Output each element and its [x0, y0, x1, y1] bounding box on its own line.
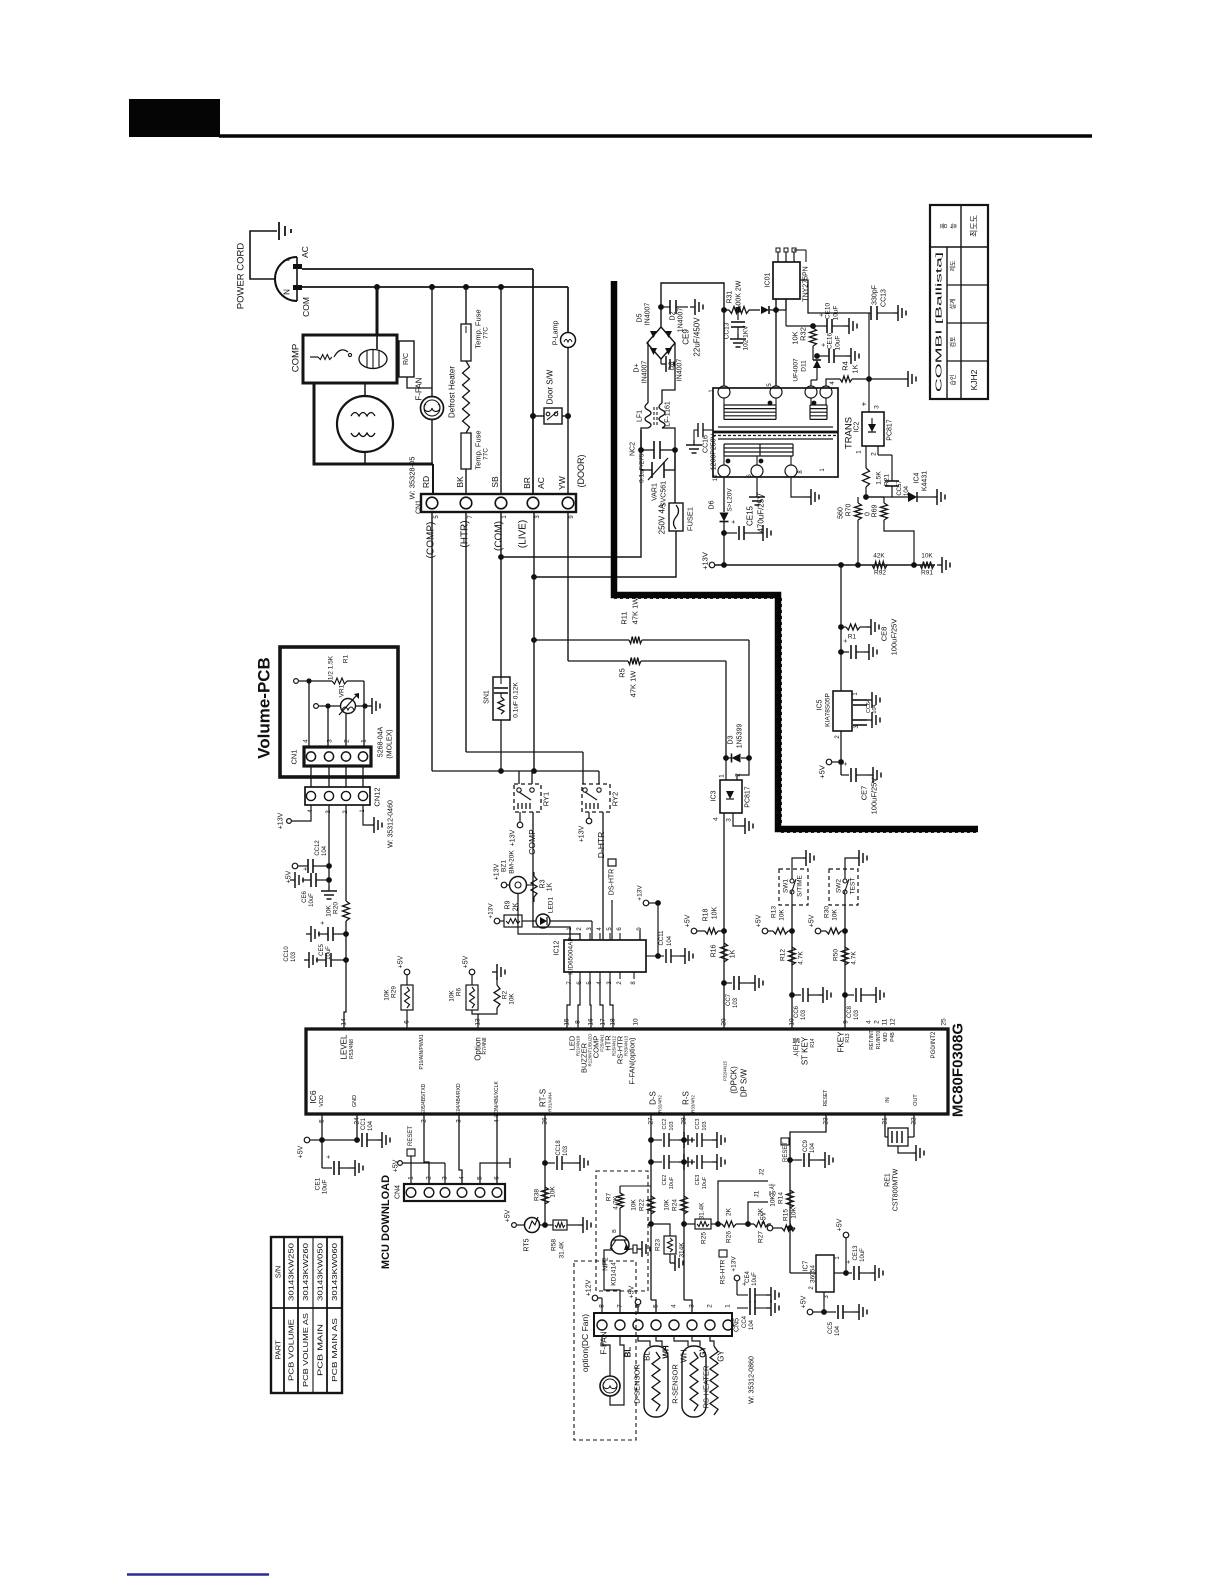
svg-text:Temp. Fuse: Temp. Fuse	[474, 309, 483, 348]
svg-text:KID65004AP: KID65004AP	[568, 937, 575, 975]
svg-text:31.4K: 31.4K	[699, 1202, 706, 1220]
svg-text:RET/INT: RET/INT	[869, 1030, 875, 1049]
svg-text:104: 104	[667, 935, 673, 946]
svg-text:+5V: +5V	[629, 1285, 636, 1298]
svg-text:KD1414: KD1414	[611, 1262, 618, 1286]
svg-text:104: 104	[322, 845, 328, 856]
svg-text:13: 13	[475, 1018, 482, 1026]
svg-text:Defrost Heater: Defrost Heater	[448, 366, 457, 418]
svg-text:P4B: P4B	[890, 1032, 896, 1042]
svg-text:LEVEL: LEVEL	[340, 1034, 349, 1059]
svg-text:R6: R6	[456, 987, 463, 996]
svg-text:CC12: CC12	[315, 840, 321, 856]
svg-text:R24: R24	[672, 1199, 679, 1211]
svg-text:5: 5	[477, 1176, 484, 1180]
svg-text:WH: WH	[662, 1345, 671, 1359]
svg-text:1K: 1K	[730, 949, 737, 958]
svg-text:10K: 10K	[791, 1207, 798, 1219]
svg-text:R7/4N8: R7/4N8	[482, 1037, 488, 1054]
svg-text:30143KW260: 30143KW260	[301, 1243, 310, 1301]
svg-text:+: +	[320, 921, 327, 925]
svg-text:PG0/INT2: PG0/INT2	[931, 1031, 937, 1058]
svg-text:CC9: CC9	[803, 1139, 809, 1152]
svg-text:R25: R25	[701, 1232, 708, 1244]
svg-text:CE1: CE1	[315, 1177, 322, 1190]
svg-text:4: 4	[303, 739, 310, 743]
svg-text:CN12: CN12	[373, 787, 382, 806]
svg-text:MID: MID	[883, 1032, 889, 1042]
svg-text:SVC561: SVC561	[661, 481, 668, 507]
svg-text:10: 10	[633, 1018, 640, 1026]
svg-text:100uF/25V: 100uF/25V	[870, 778, 879, 815]
svg-text:+13V: +13V	[701, 552, 710, 570]
svg-text:FUSE1: FUSE1	[686, 507, 695, 531]
svg-text:42K: 42K	[873, 553, 885, 560]
svg-text:KIA78S05P: KIA78S05P	[825, 693, 832, 727]
svg-text:4: 4	[459, 1176, 466, 1180]
svg-text:LED1: LED1	[548, 896, 555, 913]
svg-text:CE15: CE15	[746, 505, 755, 526]
svg-text:R50: R50	[833, 949, 840, 961]
svg-text:30143KW250: 30143KW250	[287, 1243, 296, 1301]
svg-text:103: 103	[669, 1121, 675, 1130]
svg-text:31.4K: 31.4K	[559, 1241, 566, 1259]
svg-text:P10/AIN/PWM1: P10/AIN/PWM1	[419, 1034, 425, 1069]
svg-text:LF-1161: LF-1161	[665, 401, 672, 427]
svg-text:R11: R11	[620, 611, 629, 624]
svg-text:DS-HTR: DS-HTR	[609, 869, 616, 895]
svg-text:R22: R22	[639, 1199, 646, 1211]
svg-text:18: 18	[610, 1018, 617, 1026]
svg-text:CC5: CC5	[828, 1321, 834, 1334]
svg-text:+13V: +13V	[510, 829, 517, 846]
svg-text:1: 1	[361, 739, 368, 743]
svg-text:+: +	[846, 1260, 853, 1264]
svg-text:S/TIME: S/TIME	[797, 875, 804, 897]
svg-text:R33/4R2: R33/4R2	[691, 1095, 696, 1113]
svg-text:10K: 10K	[779, 909, 786, 921]
svg-text:W: 35328-05: W: 35328-05	[408, 457, 417, 500]
svg-text:PCB VOLUME AS: PCB VOLUME AS	[301, 1313, 310, 1387]
svg-text:IC6: IC6	[308, 1090, 318, 1104]
svg-text:10K: 10K	[509, 993, 516, 1005]
svg-text:+5V: +5V	[761, 1211, 768, 1224]
svg-text:RS-HEATER: RS-HEATER	[702, 1365, 711, 1408]
svg-text:R32: R32	[799, 327, 808, 341]
svg-text:R32/4R2: R32/4R2	[658, 1095, 663, 1113]
svg-text:+5V: +5V	[398, 955, 405, 968]
svg-text:R15: R15	[783, 1209, 790, 1221]
svg-text:1: 1	[725, 1304, 732, 1308]
svg-text:BK: BK	[455, 476, 465, 488]
svg-text:CN1: CN1	[290, 749, 299, 764]
svg-text:F-FAN: F-FAN	[600, 1331, 609, 1354]
svg-text:E05/4B5/TXD: E05/4B5/TXD	[421, 1083, 427, 1114]
svg-text:D5: D5	[637, 313, 644, 322]
svg-text:+5V: +5V	[298, 1145, 305, 1158]
svg-text:(LIVE): (LIVE)	[518, 520, 529, 548]
svg-text:YW: YW	[557, 476, 567, 490]
svg-text:D11: D11	[801, 360, 808, 372]
svg-text:W: 35312-0460: W: 35312-0460	[388, 800, 395, 848]
svg-text:습인: 습인	[949, 374, 957, 385]
svg-text:WH: WH	[680, 1349, 689, 1363]
svg-text:CC7: CC7	[726, 993, 732, 1006]
svg-text:(COMP): (COMP)	[426, 522, 437, 559]
svg-text:KJH2: KJH2	[969, 369, 979, 390]
svg-text:option(DC Fan): option(DC Fan)	[580, 1314, 590, 1372]
svg-text:3: 3	[874, 405, 881, 409]
svg-text:RD: RD	[421, 476, 431, 488]
svg-text:CE3: CE3	[695, 1175, 701, 1186]
svg-text:10K: 10K	[712, 906, 719, 919]
svg-text:CC13: CC13	[724, 322, 731, 339]
svg-text:CC13: CC13	[881, 289, 888, 307]
svg-text:(DPCK): (DPCK)	[730, 1066, 739, 1094]
svg-text:COMP: COMP	[291, 344, 302, 373]
svg-text:SW2: SW2	[836, 879, 843, 893]
svg-text:RT-S: RT-S	[539, 1089, 548, 1107]
svg-text:CC1: CC1	[361, 1117, 367, 1130]
svg-text:4.7K: 4.7K	[851, 951, 858, 965]
svg-text:Volume-PCB: Volume-PCB	[255, 657, 274, 759]
svg-text:R91: R91	[921, 570, 933, 577]
svg-text:시타붏: 시타붏	[792, 1037, 801, 1057]
svg-text:77C: 77C	[483, 448, 490, 460]
svg-text:1: 1	[856, 450, 863, 454]
svg-text:R13: R13	[845, 1033, 851, 1042]
svg-text:D+: D+	[634, 363, 641, 372]
svg-text:F-FAN: F-FAN	[415, 377, 424, 400]
svg-text:R14: R14	[778, 1192, 785, 1204]
svg-text:103: 103	[801, 1009, 807, 1020]
svg-text:AC: AC	[536, 477, 546, 489]
svg-text:+5V: +5V	[505, 1209, 512, 1222]
svg-text:10K: 10K	[791, 331, 800, 344]
svg-text:IN4007: IN4007	[677, 359, 684, 382]
svg-text:CN4: CN4	[395, 1185, 402, 1199]
svg-text:D3: D3	[728, 735, 735, 744]
svg-text:IN: IN	[885, 1097, 891, 1103]
svg-text:10uF: 10uF	[835, 336, 842, 351]
svg-text:4: 4	[713, 817, 720, 821]
svg-text:PCB MAIN: PCB MAIN	[316, 1324, 325, 1376]
svg-text:NC2: NC2	[630, 442, 637, 456]
svg-text:103: 103	[702, 1121, 708, 1130]
svg-text:1K: 1K	[547, 882, 554, 891]
svg-text:+13V: +13V	[488, 903, 495, 919]
svg-text:103: 103	[563, 1145, 569, 1156]
svg-text:CE2: CE2	[662, 1175, 668, 1186]
svg-text:25: 25	[941, 1018, 948, 1026]
svg-text:10uF: 10uF	[322, 1180, 329, 1195]
svg-text:R69: R69	[872, 504, 879, 517]
svg-text:2: 2	[874, 1020, 881, 1024]
svg-text:POWER CORD: POWER CORD	[236, 243, 247, 310]
svg-text:PC817: PC817	[887, 419, 894, 441]
svg-text:K4431: K4431	[922, 471, 929, 491]
svg-text:R92: R92	[874, 570, 886, 577]
svg-text:RY1: RY1	[542, 792, 551, 806]
svg-text:4.7K: 4.7K	[798, 951, 805, 965]
svg-text:VR1: VR1	[339, 684, 346, 697]
svg-text:CC4: CC4	[742, 1315, 748, 1328]
svg-text:P32/4N15: P32/4N15	[723, 1060, 728, 1081]
svg-text:+13V: +13V	[579, 825, 586, 842]
svg-text:5: 5	[653, 1304, 660, 1308]
svg-text:동사: 동사	[768, 1183, 777, 1196]
svg-text:11: 11	[882, 1018, 889, 1025]
svg-text:2: 2	[735, 773, 742, 777]
svg-text:LF1: LF1	[637, 410, 644, 422]
svg-text:BL: BL	[643, 1351, 652, 1361]
svg-text:(DOOR): (DOOR)	[576, 455, 586, 488]
svg-text:10K: 10K	[921, 553, 933, 560]
svg-text:R53/4N8: R53/4N8	[349, 1039, 355, 1059]
svg-text:R58: R58	[551, 1239, 558, 1251]
svg-text:1N5399: 1N5399	[737, 724, 744, 749]
svg-text:10K: 10K	[664, 1199, 671, 1211]
svg-text:10K: 10K	[326, 905, 333, 917]
svg-text:CE13: CE13	[853, 1245, 859, 1261]
svg-text:UF4007: UF4007	[793, 358, 800, 382]
svg-text:10: 10	[713, 474, 719, 481]
svg-text:제도: 제도	[949, 260, 957, 272]
svg-text:+5V: +5V	[286, 870, 293, 883]
svg-text:20: 20	[721, 1018, 728, 1026]
svg-text:4: 4	[866, 1020, 873, 1024]
svg-text:설계: 설계	[949, 298, 957, 309]
svg-text:R-S: R-S	[682, 1091, 691, 1105]
svg-text:R4: R4	[841, 361, 850, 371]
svg-text:3: 3	[689, 1304, 696, 1308]
svg-text:470uF/25V: 470uF/25V	[757, 493, 766, 533]
svg-text:R16: R16	[711, 944, 718, 957]
svg-text:D-S: D-S	[649, 1091, 658, 1105]
svg-text:RESET: RESET	[408, 1126, 414, 1146]
svg-text:2: 2	[344, 739, 351, 743]
svg-text:1: 1	[719, 774, 726, 778]
svg-text:D-HTR: D-HTR	[596, 832, 606, 858]
svg-text:R7: R7	[606, 1192, 613, 1201]
svg-text:늏: 늏	[950, 223, 958, 229]
svg-text:OUT: OUT	[913, 1094, 919, 1106]
svg-text:RY2: RY2	[611, 792, 620, 806]
svg-text:RT5: RT5	[524, 1238, 531, 1251]
svg-text:0.1uF/275V: 0.1uF/275V	[639, 449, 646, 483]
svg-text:10uF: 10uF	[669, 1176, 675, 1189]
svg-text:36054: 36054	[810, 1265, 817, 1283]
svg-text:CE6: CE6	[302, 891, 308, 903]
svg-text:COM: COM	[301, 297, 311, 317]
svg-text:+13V: +13V	[637, 885, 644, 901]
svg-text:CE7: CE7	[860, 786, 869, 801]
svg-text:4: 4	[671, 1304, 678, 1308]
svg-text:R29: R29	[391, 986, 398, 998]
svg-text:R27: R27	[758, 1231, 765, 1243]
svg-text:R30: R30	[824, 906, 831, 918]
svg-text:DP S/W: DP S/W	[740, 1068, 749, 1097]
svg-text:+: +	[326, 1155, 333, 1159]
svg-text:+5V: +5V	[837, 1218, 844, 1231]
svg-text:1.5K: 1.5K	[876, 471, 883, 485]
svg-text:PCB VOLUME: PCB VOLUME	[287, 1319, 296, 1381]
svg-text:IN4007: IN4007	[645, 303, 652, 326]
svg-text:SW1: SW1	[783, 879, 790, 893]
svg-text:RESET: RESET	[823, 1090, 829, 1107]
svg-text:10uF: 10uF	[309, 893, 315, 907]
svg-text:(HTR): (HTR)	[460, 520, 471, 547]
svg-text:+: +	[843, 762, 850, 766]
svg-text:SB: SB	[490, 476, 500, 488]
svg-text:BL: BL	[624, 1347, 633, 1358]
svg-text:R31: R31	[727, 290, 734, 303]
svg-text:W: 35312-0860: W: 35312-0860	[749, 1356, 756, 1404]
svg-text:R1/INT0: R1/INT0	[876, 1030, 882, 1049]
svg-text:+5V: +5V	[818, 765, 827, 779]
svg-text:12: 12	[890, 1018, 897, 1026]
svg-text:R14: R14	[810, 1038, 816, 1047]
svg-text:330pF: 330pF	[872, 285, 879, 305]
svg-text:104: 104	[368, 1120, 374, 1131]
svg-text:+5V: +5V	[463, 955, 470, 968]
svg-text:+12V: +12V	[586, 1279, 593, 1296]
svg-text:10K: 10K	[631, 1199, 638, 1211]
svg-text:IC5: IC5	[817, 699, 824, 710]
svg-text:IC2: IC2	[854, 421, 861, 432]
svg-text:10K: 10K	[770, 1195, 777, 1207]
svg-text:9: 9	[843, 1020, 850, 1024]
svg-text:PC817: PC817	[745, 786, 752, 808]
svg-text:17: 17	[600, 1018, 607, 1026]
svg-text:CN1: CN1	[416, 500, 423, 514]
svg-text:103: 103	[291, 951, 297, 962]
svg-text:3: 3	[327, 739, 334, 743]
svg-text:ST KEY: ST KEY	[801, 1036, 810, 1065]
svg-text:5268-04A: 5268-04A	[378, 726, 385, 757]
svg-text:IC3: IC3	[711, 790, 718, 801]
svg-text:10uF: 10uF	[860, 1248, 866, 1262]
svg-text:PART: PART	[274, 1340, 283, 1360]
svg-text:1K: 1K	[851, 364, 860, 373]
svg-text:VDD: VDD	[319, 1095, 325, 1107]
svg-text:6: 6	[494, 1176, 501, 1180]
svg-text:CC16: CC16	[703, 435, 710, 453]
svg-text:CE9: CE9	[682, 329, 691, 345]
svg-text:P-Lamp: P-Lamp	[553, 321, 560, 346]
svg-text:CC18: CC18	[556, 1140, 562, 1156]
svg-text:R13: R13	[771, 906, 778, 918]
svg-text:EON/4B6/XCLK: EON/4B6/XCLK	[494, 1081, 500, 1117]
svg-text:L: L	[283, 256, 292, 261]
svg-text:CN5: CN5	[734, 1318, 741, 1332]
svg-text:CE8: CE8	[880, 627, 889, 642]
svg-text:1/2 1.5K: 1/2 1.5K	[328, 655, 335, 680]
svg-text:10: 10	[789, 1018, 796, 1026]
svg-text:10K: 10K	[832, 909, 839, 921]
svg-text:B: B	[612, 1229, 618, 1233]
svg-text:최도도: 최도도	[969, 215, 979, 237]
svg-text:J1: J1	[754, 1190, 761, 1197]
svg-text:RE1: RE1	[885, 1173, 892, 1187]
svg-text:CC3: CC3	[695, 1118, 701, 1129]
svg-text:R12: R12	[780, 949, 787, 961]
svg-text:8: 8	[599, 1304, 606, 1308]
svg-text:CC2: CC2	[662, 1118, 668, 1129]
svg-text:R70: R70	[846, 503, 853, 516]
svg-text:104: 104	[872, 704, 878, 713]
svg-text:1: 1	[408, 1176, 415, 1180]
svg-text:S>L20V: S>L20V	[727, 488, 734, 512]
svg-text:+5V: +5V	[756, 914, 763, 927]
svg-text:IN4007: IN4007	[642, 361, 649, 384]
svg-text:MCU DOWNLOAD: MCU DOWNLOAD	[380, 1175, 392, 1269]
svg-text:CC8: CC8	[847, 1005, 853, 1018]
svg-text:품: 품	[940, 223, 948, 229]
svg-text:CST800MTW: CST800MTW	[893, 1168, 900, 1211]
svg-text:BR: BR	[522, 477, 532, 489]
svg-text:R23: R23	[655, 1239, 662, 1251]
svg-text:77C: 77C	[483, 327, 490, 339]
svg-text:R20: R20	[333, 902, 340, 914]
svg-text:F-FAN(option): F-FAN(option)	[628, 1037, 637, 1085]
svg-text:J2: J2	[759, 1168, 766, 1175]
svg-text:104: 104	[749, 1319, 755, 1330]
svg-text:8: 8	[575, 1020, 582, 1024]
svg-text:16: 16	[588, 1018, 595, 1026]
svg-text:22uF/450V: 22uF/450V	[693, 317, 702, 357]
svg-text:R38: R38	[534, 1189, 541, 1201]
svg-text:IC01: IC01	[765, 273, 772, 288]
svg-text:D-SENSOR: D-SENSOR	[633, 1364, 642, 1404]
svg-text:D6: D6	[709, 500, 716, 509]
svg-text:CC10: CC10	[284, 946, 290, 962]
svg-text:+: +	[731, 520, 738, 524]
svg-text:3: 3	[726, 818, 733, 822]
svg-text:102 1KV: 102 1KV	[743, 325, 750, 351]
svg-text:R18: R18	[703, 908, 710, 921]
svg-text:10uF: 10uF	[752, 1272, 758, 1286]
svg-text:4.7K: 4.7K	[613, 1196, 620, 1210]
svg-text:CE4: CE4	[745, 1271, 751, 1283]
svg-text:CE10: CE10	[825, 302, 832, 319]
svg-text:CC11: CC11	[659, 930, 665, 946]
svg-text:R5: R5	[618, 668, 627, 678]
svg-text:47K 1W: 47K 1W	[629, 670, 638, 698]
svg-text:R-SENSOR: R-SENSOR	[671, 1364, 680, 1404]
svg-text:GY: GY	[699, 1346, 708, 1358]
svg-text:15: 15	[564, 1018, 571, 1026]
svg-text:GY: GY	[717, 1350, 726, 1362]
svg-text:R3: R3	[540, 879, 547, 888]
svg-text:47K 1W: 47K 1W	[631, 597, 640, 625]
svg-text:100K 2W: 100K 2W	[736, 280, 743, 309]
svg-text:IC7: IC7	[803, 1260, 810, 1271]
svg-text:10uF: 10uF	[833, 306, 840, 321]
svg-text:E04/4B4/RXD: E04/4B4/RXD	[456, 1083, 462, 1115]
svg-text:30143KW050: 30143KW050	[316, 1243, 325, 1301]
svg-text:CE5: CE5	[319, 944, 325, 956]
svg-text:6: 6	[404, 1020, 411, 1024]
svg-text:560: 560	[838, 507, 845, 519]
svg-text:IC12: IC12	[554, 941, 561, 956]
svg-text:+5V: +5V	[801, 1295, 808, 1308]
svg-text:+5V: +5V	[809, 914, 816, 927]
svg-text:AC: AC	[300, 246, 310, 258]
svg-text:2: 2	[707, 1304, 714, 1308]
svg-text:+13V: +13V	[278, 812, 285, 829]
svg-text:VAR1: VAR1	[652, 483, 659, 501]
